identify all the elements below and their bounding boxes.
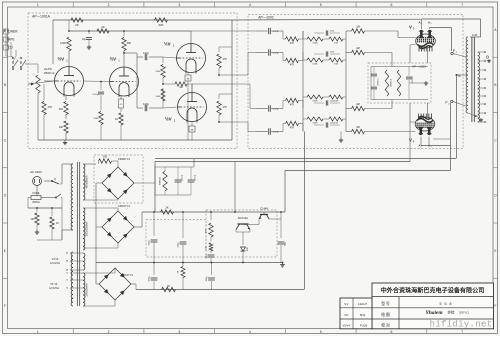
svg-text:抄绘: 抄绘 bbox=[447, 310, 455, 315]
svg-text:2K: 2K bbox=[101, 25, 105, 29]
svg-text:X: X bbox=[66, 259, 68, 263]
svg-text:910: 910 bbox=[59, 108, 64, 111]
svg-text:510K: 510K bbox=[312, 64, 318, 66]
svg-text:100s: 100s bbox=[330, 101, 334, 103]
svg-text:1: 1 bbox=[37, 330, 39, 334]
svg-text:510K: 510K bbox=[155, 71, 161, 73]
svg-text:½V: ½V bbox=[110, 57, 117, 62]
svg-text:510K: 510K bbox=[155, 96, 161, 98]
svg-text:1M: 1M bbox=[356, 25, 360, 29]
svg-text:47K: 47K bbox=[290, 42, 295, 45]
svg-text:100s: 100s bbox=[330, 31, 334, 33]
svg-text:62K: 62K bbox=[159, 23, 164, 27]
svg-text:V1:: V1: bbox=[344, 302, 349, 306]
svg-text:E: E bbox=[4, 249, 6, 253]
svg-text:V2:: V2: bbox=[344, 313, 349, 317]
svg-text:C1448: C1448 bbox=[260, 207, 268, 211]
svg-text:V3 V4: V3 V4 bbox=[52, 258, 59, 261]
svg-text:36K: 36K bbox=[127, 42, 132, 45]
svg-text:6: 6 bbox=[390, 3, 392, 7]
svg-text:X: X bbox=[66, 251, 68, 255]
svg-text:3: 3 bbox=[178, 330, 180, 334]
svg-text:4700×2: 4700×2 bbox=[377, 78, 380, 86]
svg-text:V3/V4:: V3/V4: bbox=[342, 323, 350, 327]
svg-text:V: V bbox=[409, 138, 412, 143]
svg-text:2: 2 bbox=[431, 23, 432, 25]
svg-text:Yhaiem: Yhaiem bbox=[425, 310, 442, 316]
svg-text:1M: 1M bbox=[356, 102, 360, 106]
svg-text:1K: 1K bbox=[115, 118, 118, 121]
svg-text:AP—1002: AP—1002 bbox=[258, 16, 274, 20]
svg-text:½V: ½V bbox=[164, 42, 171, 47]
svg-text:V: V bbox=[409, 25, 412, 30]
svg-text:B: B bbox=[494, 83, 496, 87]
svg-text:Y: Y bbox=[66, 286, 68, 290]
svg-text:FR307×4: FR307×4 bbox=[118, 157, 130, 161]
svg-text:1M: 1M bbox=[356, 125, 360, 129]
svg-text:2: 2 bbox=[108, 3, 110, 7]
svg-text:100μ: 100μ bbox=[206, 255, 208, 260]
svg-text:FUSE: FUSE bbox=[33, 191, 40, 195]
svg-text:7: 7 bbox=[461, 330, 463, 334]
svg-text:FR107×4: FR107×4 bbox=[121, 273, 133, 277]
svg-text:0.47μ×2: 0.47μ×2 bbox=[411, 75, 414, 83]
svg-text:A.TUNER: A.TUNER bbox=[4, 30, 19, 34]
svg-text:3: 3 bbox=[178, 3, 180, 7]
svg-text:300K×4: 300K×4 bbox=[390, 78, 393, 86]
svg-text:½V: ½V bbox=[165, 117, 172, 122]
svg-text:47K: 47K bbox=[206, 229, 208, 233]
svg-text:12AU7: 12AU7 bbox=[358, 302, 368, 306]
svg-text:1: 1 bbox=[421, 146, 422, 148]
svg-text:FU29: FU29 bbox=[360, 323, 368, 327]
svg-text:20V/100mA: 20V/100mA bbox=[86, 283, 89, 296]
svg-text:Y: Y bbox=[66, 271, 68, 275]
svg-text:AP—1001A: AP—1001A bbox=[32, 15, 50, 19]
svg-text:中外合资珠海斯巴克电子设备有限公司: 中外合资珠海斯巴克电子设备有限公司 bbox=[381, 286, 485, 294]
svg-text:AC 220V: AC 220V bbox=[30, 170, 42, 174]
svg-text:2K: 2K bbox=[75, 23, 79, 27]
svg-text:510K: 510K bbox=[312, 123, 318, 125]
svg-text:校 对: 校 对 bbox=[381, 322, 390, 327]
svg-text:47K: 47K bbox=[48, 105, 53, 109]
svg-text:12.6V/3A: 12.6V/3A bbox=[49, 287, 59, 290]
svg-text:1: 1 bbox=[37, 3, 39, 7]
svg-text:0.47μ: 0.47μ bbox=[143, 52, 150, 55]
svg-text:47K: 47K bbox=[290, 64, 295, 67]
svg-text:250K×2: 250K×2 bbox=[44, 71, 55, 75]
svg-text:Y: Y bbox=[66, 278, 68, 282]
svg-text:BU713A: BU713A bbox=[238, 216, 248, 220]
svg-text:43K: 43K bbox=[247, 247, 249, 251]
svg-text:2: 2 bbox=[431, 146, 432, 148]
svg-text:F: F bbox=[495, 304, 497, 308]
svg-text:680KΩ2: 680KΩ2 bbox=[160, 176, 162, 185]
svg-text:220μ: 220μ bbox=[149, 240, 151, 246]
svg-text:220μ: 220μ bbox=[178, 242, 180, 248]
svg-text:0.47μ: 0.47μ bbox=[273, 109, 279, 111]
svg-text:100K: 100K bbox=[60, 42, 66, 45]
svg-text:250VA: 250VA bbox=[32, 200, 40, 204]
svg-text:FR107×4: FR107×4 bbox=[118, 204, 130, 208]
svg-text:510K: 510K bbox=[312, 43, 318, 45]
svg-text:510K: 510K bbox=[312, 101, 318, 103]
svg-text:K: K bbox=[54, 177, 56, 181]
svg-text:P: P bbox=[445, 101, 447, 105]
svg-text:0.22μF: 0.22μF bbox=[93, 94, 101, 96]
svg-text:V3' V4': V3' V4' bbox=[50, 283, 58, 286]
svg-text:B: B bbox=[4, 83, 6, 87]
svg-text:E: E bbox=[494, 249, 496, 253]
svg-text:4: 4 bbox=[249, 330, 251, 334]
svg-text:2: 2 bbox=[108, 330, 110, 334]
svg-text:47K: 47K bbox=[290, 104, 295, 107]
svg-text:1M: 1M bbox=[179, 85, 183, 89]
svg-text:5 6 8: 5 6 8 bbox=[440, 302, 453, 306]
svg-text:100μ: 100μ bbox=[206, 276, 208, 282]
svg-text:½V: ½V bbox=[58, 57, 65, 62]
svg-text:6N1: 6N1 bbox=[360, 313, 366, 317]
svg-text:2K: 2K bbox=[167, 284, 170, 288]
svg-text:0.47μ: 0.47μ bbox=[143, 103, 150, 106]
svg-text:47K: 47K bbox=[223, 58, 228, 61]
svg-text:B: B bbox=[458, 74, 460, 78]
svg-text:100s: 100s bbox=[330, 123, 334, 125]
svg-text:TAPE: TAPE bbox=[6, 38, 14, 42]
svg-text:4: 4 bbox=[249, 3, 251, 7]
svg-text:1M: 1M bbox=[356, 46, 360, 50]
svg-text:510K: 510K bbox=[93, 118, 99, 120]
svg-text:250V/250mA: 250V/250mA bbox=[86, 221, 89, 236]
svg-text:F+B: F+B bbox=[472, 33, 477, 37]
svg-text:P: P bbox=[453, 49, 455, 53]
svg-text:F: F bbox=[4, 304, 6, 308]
svg-text:7: 7 bbox=[461, 3, 463, 7]
svg-text:220+2: 220+2 bbox=[195, 174, 197, 181]
svg-text:12.6V/3A: 12.6V/3A bbox=[50, 262, 60, 265]
svg-text:103: 103 bbox=[31, 218, 36, 221]
svg-text:6: 6 bbox=[390, 330, 392, 334]
svg-text:10μ: 10μ bbox=[82, 38, 87, 41]
svg-text:150: 150 bbox=[103, 156, 108, 159]
svg-text:型 号: 型 号 bbox=[381, 301, 390, 306]
svg-text:2K: 2K bbox=[165, 206, 168, 210]
svg-text:10K: 10K bbox=[59, 126, 64, 129]
svg-text:100s: 100s bbox=[330, 52, 334, 54]
svg-text:2007.6.2: 2007.6.2 bbox=[459, 311, 469, 314]
svg-text:5: 5 bbox=[320, 3, 322, 7]
svg-text:hifidiy.net: hifidiy.net bbox=[430, 318, 493, 329]
svg-text:400V/80mA: 400V/80mA bbox=[86, 175, 89, 188]
svg-text:10Ω: 10Ω bbox=[206, 246, 208, 250]
svg-text:47K: 47K bbox=[290, 127, 295, 130]
svg-text:470μ: 470μ bbox=[149, 276, 151, 282]
svg-text:220+2: 220+2 bbox=[182, 174, 184, 181]
svg-text:绘 图: 绘 图 bbox=[381, 312, 390, 317]
svg-text:5: 5 bbox=[320, 330, 322, 334]
svg-text:47K: 47K bbox=[223, 106, 228, 109]
